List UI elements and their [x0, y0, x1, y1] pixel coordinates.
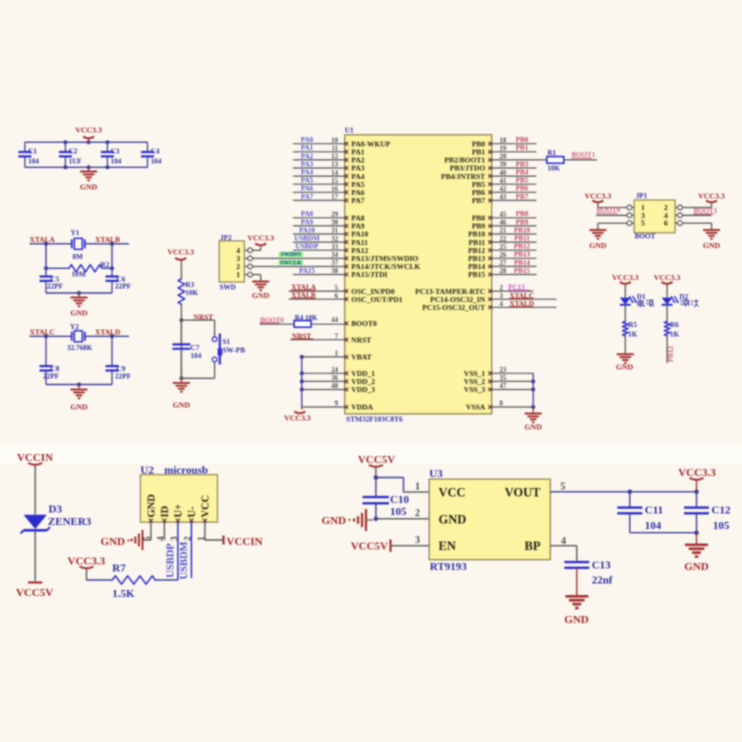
svg-text:GND: GND	[684, 561, 709, 573]
svg-text:SWD: SWD	[220, 283, 236, 291]
svg-text:C10: C10	[390, 494, 409, 506]
svg-text:VCC3.3: VCC3.3	[654, 273, 681, 282]
svg-text:1: 1	[236, 270, 240, 279]
svg-text:USBDM: USBDM	[294, 235, 320, 243]
svg-text:PA2: PA2	[301, 152, 314, 160]
svg-text:PA9: PA9	[301, 218, 314, 226]
svg-text:XTALA: XTALA	[30, 235, 56, 244]
svg-text:VDDA: VDDA	[351, 403, 373, 412]
svg-text:BOOT: BOOT	[635, 233, 656, 241]
svg-text:JP1: JP1	[636, 192, 648, 200]
svg-text:C13: C13	[592, 559, 611, 571]
svg-text:GND: GND	[80, 183, 98, 192]
svg-text:U1: U1	[345, 126, 354, 134]
svg-text:VCCIN: VCCIN	[227, 536, 263, 548]
svg-text:XTALB: XTALB	[95, 235, 120, 244]
svg-text:PB8: PB8	[516, 210, 529, 218]
svg-text:GND: GND	[589, 241, 607, 250]
svg-text:2: 2	[415, 508, 420, 519]
svg-text:34: 34	[331, 252, 338, 259]
svg-text:VCC3.3: VCC3.3	[284, 414, 311, 423]
svg-text:1.5K: 1.5K	[112, 588, 135, 600]
svg-text:44: 44	[331, 317, 338, 324]
svg-text:GND: GND	[439, 513, 467, 527]
svg-text:PB15: PB15	[468, 270, 485, 279]
svg-text:VCC: VCC	[439, 486, 466, 500]
svg-text:VCC3.3: VCC3.3	[68, 555, 106, 567]
svg-text:PA1: PA1	[301, 144, 314, 152]
svg-text:C11: C11	[645, 505, 663, 517]
svg-text:VCC3.3: VCC3.3	[247, 234, 274, 243]
svg-text:1K: 1K	[628, 330, 638, 338]
svg-text:37: 37	[331, 260, 338, 267]
svg-text:4: 4	[561, 536, 566, 547]
svg-text:SWDIO: SWDIO	[281, 252, 301, 258]
svg-text:BP: BP	[525, 539, 541, 553]
svg-text:VSSA: VSSA	[466, 403, 486, 412]
svg-text:PB1: PB1	[516, 144, 529, 152]
svg-text:22nf: 22nf	[592, 574, 613, 586]
svg-text:R4 10K: R4 10K	[295, 314, 318, 322]
svg-text:C2: C2	[69, 148, 78, 156]
svg-text:VSS_3: VSS_3	[464, 385, 486, 394]
svg-text:EN: EN	[439, 539, 456, 553]
svg-text:PB12: PB12	[514, 243, 530, 251]
svg-text:VCC5V: VCC5V	[16, 587, 53, 599]
svg-text:PB9: PB9	[516, 218, 529, 226]
svg-text:BOOT0: BOOT0	[351, 319, 377, 328]
svg-text:VCC: VCC	[200, 495, 211, 518]
svg-text:D3: D3	[49, 504, 63, 516]
svg-text:PB11: PB11	[514, 235, 530, 243]
svg-text:GND: GND	[564, 614, 589, 626]
svg-text:104: 104	[645, 520, 662, 532]
svg-text:PB14: PB14	[514, 259, 530, 267]
svg-text:6: 6	[664, 219, 668, 228]
svg-text:D1: D1	[637, 293, 646, 301]
svg-text:8M: 8M	[73, 253, 84, 261]
svg-text:105: 105	[390, 506, 407, 518]
svg-text:VCC3.3: VCC3.3	[585, 192, 612, 201]
svg-text:PA7: PA7	[301, 193, 314, 201]
svg-text:PB0: PB0	[516, 136, 529, 144]
svg-text:PA10: PA10	[299, 226, 315, 234]
svg-text:PC15-OSC32_OUT: PC15-OSC32_OUT	[422, 303, 485, 312]
svg-text:R5: R5	[628, 321, 637, 329]
svg-text:GND: GND	[70, 309, 88, 318]
svg-text:10K: 10K	[185, 289, 198, 297]
svg-text:22PF: 22PF	[115, 283, 132, 291]
svg-text:R6: R6	[670, 321, 679, 329]
svg-text:PB7: PB7	[472, 196, 486, 205]
svg-text:ID: ID	[160, 505, 171, 517]
svg-text:SW-PB: SW-PB	[223, 347, 246, 355]
svg-text:USBDM: USBDM	[179, 541, 190, 579]
svg-text:GND: GND	[322, 515, 347, 527]
svg-text:104: 104	[28, 158, 39, 166]
svg-text:U3: U3	[429, 468, 443, 480]
svg-text:PA8: PA8	[301, 210, 314, 218]
svg-text:PA15/JTDI: PA15/JTDI	[351, 270, 387, 279]
svg-text:USBDP: USBDP	[166, 543, 177, 578]
svg-text:R1: R1	[548, 149, 557, 157]
svg-text:10M: 10M	[72, 271, 86, 279]
svg-text:PB15: PB15	[514, 267, 530, 275]
svg-text:VCC5V: VCC5V	[358, 454, 395, 466]
svg-text:Y2: Y2	[70, 323, 79, 331]
svg-text:U-: U-	[187, 506, 198, 518]
svg-text:PB6: PB6	[516, 185, 529, 193]
svg-text:PA6: PA6	[301, 185, 314, 193]
svg-text:VCC3.3: VCC3.3	[75, 126, 102, 135]
svg-text:GND: GND	[173, 400, 191, 409]
svg-text:PB3: PB3	[516, 160, 529, 168]
svg-text:104: 104	[191, 352, 202, 360]
svg-text:5: 5	[641, 219, 645, 228]
svg-text:VCC3.3: VCC3.3	[678, 467, 716, 479]
svg-text:PA0: PA0	[301, 136, 314, 144]
svg-text:22PF: 22PF	[115, 373, 132, 381]
svg-text:VCC3.3: VCC3.3	[612, 273, 639, 282]
svg-text:Y1: Y1	[71, 229, 80, 237]
svg-text:SWCLK: SWCLK	[280, 260, 302, 266]
svg-text:R2: R2	[101, 261, 110, 269]
svg-text:USBDP: USBDP	[296, 243, 320, 251]
svg-text:PB10: PB10	[514, 226, 530, 234]
svg-text:S1: S1	[223, 338, 231, 346]
svg-text:STM32F103C8T6: STM32F103C8T6	[346, 415, 403, 424]
svg-text:4: 4	[157, 536, 167, 541]
svg-text:VCC3.3: VCC3.3	[698, 192, 725, 201]
svg-text:VCC5V: VCC5V	[351, 541, 388, 553]
svg-text:RT9193: RT9193	[430, 561, 467, 573]
svg-text:22PF: 22PF	[47, 283, 64, 291]
svg-text:NRST: NRST	[351, 335, 371, 344]
svg-text:PA5: PA5	[301, 177, 314, 185]
svg-text:VCC3.3: VCC3.3	[167, 248, 194, 257]
svg-text:U+: U+	[173, 504, 184, 518]
svg-text:R3: R3	[185, 281, 194, 289]
svg-text:GND: GND	[70, 403, 88, 412]
svg-text:22PF: 22PF	[43, 373, 60, 381]
svg-text:XTALC: XTALC	[30, 328, 55, 337]
svg-text:PB12: PB12	[667, 346, 675, 362]
svg-text:ZENER3: ZENER3	[48, 516, 92, 528]
svg-text:R7: R7	[112, 563, 126, 575]
svg-text:VOUT: VOUT	[505, 486, 542, 500]
svg-text:PA7: PA7	[351, 196, 364, 205]
svg-text:PA4: PA4	[301, 169, 314, 177]
svg-text:GND: GND	[616, 363, 634, 372]
svg-text:C12: C12	[712, 505, 731, 517]
svg-text:C4: C4	[151, 148, 160, 156]
svg-text:PA3: PA3	[301, 160, 314, 168]
svg-text:PB7: PB7	[516, 193, 529, 201]
svg-text:GND: GND	[101, 536, 126, 548]
svg-text:VDD_3: VDD_3	[351, 385, 375, 394]
svg-text:3: 3	[415, 535, 420, 546]
svg-text:104: 104	[151, 158, 162, 166]
svg-text:10K: 10K	[548, 165, 561, 173]
svg-text:1K: 1K	[670, 330, 680, 338]
svg-text:105: 105	[713, 520, 730, 532]
svg-text:PB13: PB13	[514, 251, 530, 259]
svg-text:XTALD: XTALD	[95, 328, 120, 337]
svg-text:GND: GND	[146, 494, 157, 518]
svg-text:GND: GND	[252, 291, 270, 300]
svg-text:1: 1	[415, 482, 420, 493]
svg-text:OSC_OUT/PD1: OSC_OUT/PD1	[351, 295, 403, 304]
svg-text:PB5: PB5	[516, 177, 529, 185]
svg-text:C1: C1	[28, 148, 37, 156]
svg-text:PB4: PB4	[516, 169, 529, 177]
svg-text:104: 104	[111, 158, 122, 166]
svg-text:PA15: PA15	[299, 267, 315, 275]
svg-text:1UF: 1UF	[69, 158, 83, 166]
svg-text:C3: C3	[111, 148, 120, 156]
svg-text:GND: GND	[703, 241, 721, 250]
svg-text:5: 5	[560, 481, 565, 492]
svg-text:GND: GND	[525, 423, 543, 432]
svg-text:VCCIN: VCCIN	[17, 452, 53, 464]
svg-text:32.768K: 32.768K	[67, 344, 93, 352]
svg-text:VBAT: VBAT	[351, 353, 371, 362]
